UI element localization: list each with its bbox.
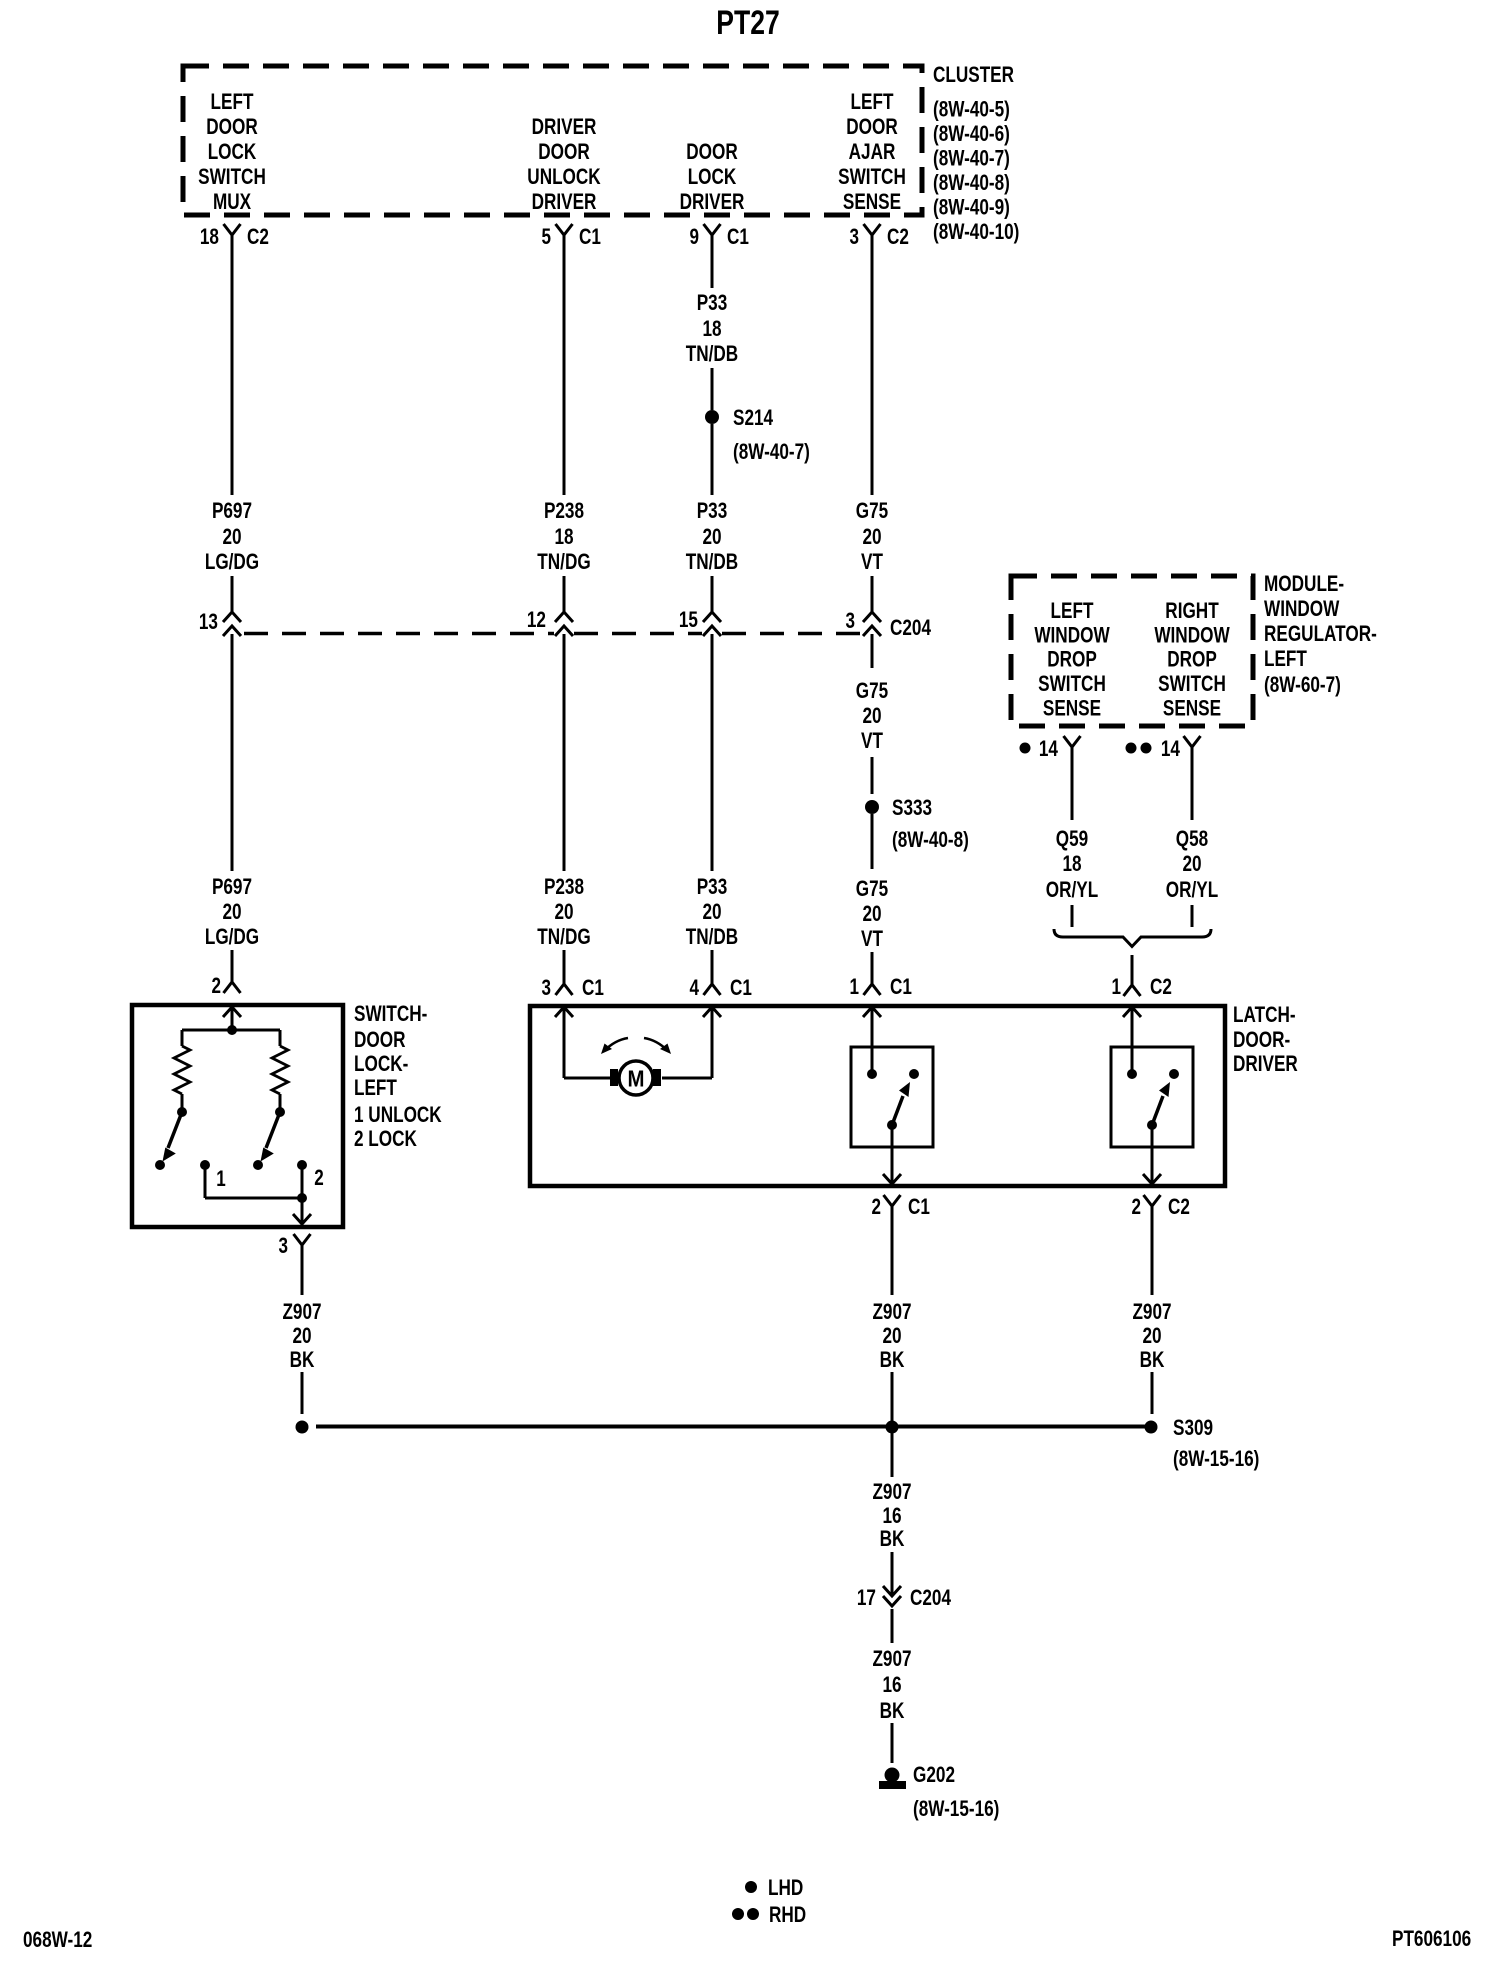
svg-text:C1: C1: [908, 1194, 930, 1219]
svg-text:C2: C2: [247, 224, 269, 249]
svg-text:C204: C204: [910, 1585, 952, 1610]
svg-text:(8W-40-10): (8W-40-10): [933, 219, 1019, 244]
wire P33 below C204: [711, 634, 714, 871]
wire merge brace joining Q59 and Q58: [1054, 929, 1211, 947]
wire P697 to switch pin 2: [231, 950, 234, 984]
connector C204 pin 13 symbol: [223, 612, 241, 622]
wire P238 to C204: [563, 576, 566, 613]
svg-text:20: 20: [554, 899, 573, 924]
wire P697 below C204: [231, 634, 234, 871]
wire P33 to latch pin 4: [711, 950, 714, 984]
svg-text:12: 12: [527, 607, 546, 632]
svg-text:LG/DG: LG/DG: [205, 549, 259, 574]
wire latch pin3 to motor: [563, 1007, 566, 1078]
svg-text:20: 20: [702, 899, 721, 924]
contact node in: [1127, 1069, 1137, 1079]
svg-text:(8W-40-8): (8W-40-8): [933, 170, 1010, 195]
resistor right (lock position sense): [272, 1046, 288, 1094]
svg-text:Z907: Z907: [872, 1299, 911, 1324]
svg-text:RIGHT: RIGHT: [1165, 598, 1219, 623]
LHD marker dot at left window switch connector: [1020, 743, 1031, 754]
svg-text:C2: C2: [887, 224, 909, 249]
connector pin 2 at switch: [224, 982, 241, 993]
svg-text:REGULATOR-: REGULATOR-: [1264, 621, 1377, 646]
contact node out (open): [909, 1069, 919, 1079]
wire Z907 below C204: [891, 1609, 894, 1643]
svg-text:9: 9: [690, 224, 700, 249]
legend LHD marker dot: [745, 1881, 757, 1893]
entry arrow latch pin 4: [703, 1007, 721, 1017]
svg-text:DOOR: DOOR: [846, 114, 898, 139]
svg-text:S333: S333: [892, 795, 932, 820]
connector C204 dashed body line segment: [722, 632, 862, 636]
wire latch pin1 C1 to status switch: [871, 1007, 874, 1074]
wire Z907 16 below S309: [891, 1427, 894, 1477]
svg-text:SENSE: SENSE: [1043, 696, 1101, 721]
svg-text:1 UNLOCK: 1 UNLOCK: [354, 1102, 442, 1127]
connector C204 pin 12 symbol: [555, 612, 573, 622]
svg-text:1: 1: [850, 974, 860, 999]
svg-text:C1: C1: [582, 975, 604, 1000]
switch wiper arm with arrowhead: [892, 1096, 903, 1125]
svg-text:P33: P33: [697, 290, 728, 315]
svg-text:LEFT: LEFT: [1264, 646, 1307, 671]
svg-text:3: 3: [542, 975, 552, 1000]
svg-text:1: 1: [216, 1166, 226, 1191]
svg-text:C1: C1: [579, 224, 601, 249]
svg-text:CLUSTER: CLUSTER: [933, 62, 1014, 87]
svg-text:BK: BK: [880, 1698, 905, 1723]
wire contact 1 down: [204, 1165, 207, 1198]
wire Z907 from latch pin 2 C2: [1151, 1206, 1154, 1295]
contact node 1 (unlock): [200, 1160, 210, 1170]
svg-text:PT27: PT27: [716, 4, 779, 42]
svg-text:15: 15: [679, 607, 698, 632]
wiper node: [1147, 1120, 1157, 1130]
splice S333: [865, 800, 879, 814]
svg-text:DOOR: DOOR: [206, 114, 258, 139]
svg-text:3: 3: [850, 224, 860, 249]
contact node out (open): [1169, 1069, 1179, 1079]
exit arrow latch pin 2 C1: [883, 1174, 901, 1184]
svg-text:SENSE: SENSE: [843, 189, 901, 214]
svg-text:4: 4: [690, 975, 700, 1000]
connector C2 pin 18 at CLUSTER: [224, 224, 241, 235]
svg-text:VT: VT: [861, 926, 883, 951]
connector C1 pin 9 at CLUSTER: [704, 224, 721, 235]
component SWITCH-DOOR LOCK-LEFT outline: [132, 1005, 343, 1227]
wire P238 from CLUSTER pin 5 down: [563, 235, 566, 495]
svg-text:SWITCH: SWITCH: [838, 164, 906, 189]
connector C204 dashed body line segment: [244, 632, 554, 636]
connector C1 pin 2 at latch output: [884, 1195, 901, 1206]
wire P33 from CLUSTER pin 9 down: [711, 235, 714, 288]
wire latch pin1 C2 to status switch: [1131, 1007, 1134, 1074]
svg-text:C2: C2: [1150, 974, 1172, 999]
svg-text:20: 20: [292, 1323, 311, 1348]
exit arrow latch pin 2 C2: [1143, 1174, 1161, 1184]
svg-text:2: 2: [314, 1165, 324, 1190]
wire Z907 from switch pin 3: [301, 1245, 304, 1295]
svg-text:P238: P238: [544, 874, 584, 899]
svg-text:068W-12: 068W-12: [23, 1927, 92, 1952]
svg-text:DOOR: DOOR: [538, 139, 590, 164]
connector C2 pin 3 at CLUSTER: [864, 224, 881, 235]
svg-text:UNLOCK: UNLOCK: [527, 164, 600, 189]
svg-text:OR/YL: OR/YL: [1166, 877, 1218, 902]
wire G75 below C204: [871, 634, 874, 668]
svg-text:MODULE-: MODULE-: [1264, 571, 1344, 596]
svg-text:20: 20: [702, 524, 721, 549]
svg-text:WINDOW: WINDOW: [1154, 622, 1229, 647]
entry arrow latch pin 3: [555, 1007, 573, 1017]
svg-text:18: 18: [200, 224, 219, 249]
svg-text:LEFT: LEFT: [211, 89, 254, 114]
svg-text:2: 2: [212, 973, 222, 998]
svg-text:3: 3: [846, 608, 856, 633]
wire Z907 from latch pin 2 C1: [891, 1206, 894, 1295]
contact node left arm: [155, 1160, 165, 1170]
exit arrow out of switch box: [293, 1214, 311, 1224]
contact node in: [867, 1069, 877, 1079]
svg-text:20: 20: [862, 703, 881, 728]
svg-text:G75: G75: [856, 876, 888, 901]
svg-text:(8W-40-7): (8W-40-7): [933, 145, 1010, 170]
wire Q59 from module pin 14: [1071, 747, 1074, 820]
wire Q58 from module pin 14: [1191, 747, 1194, 820]
splice junction left: [296, 1421, 309, 1434]
svg-text:TN/DG: TN/DG: [537, 549, 590, 574]
wiper pivot node left: [177, 1107, 187, 1117]
connector pin 14 at module left: [1064, 736, 1081, 747]
svg-text:LG/DG: LG/DG: [205, 924, 259, 949]
svg-text:Z907: Z907: [872, 1646, 911, 1671]
svg-text:(8W-40-5): (8W-40-5): [933, 96, 1010, 121]
svg-text:20: 20: [1182, 851, 1201, 876]
svg-text:(8W-40-6): (8W-40-6): [933, 121, 1010, 146]
wire resistor to wiper pivot: [181, 1094, 184, 1108]
wire contact 2 to switch pin 3: [301, 1165, 304, 1224]
svg-text:LEFT: LEFT: [354, 1075, 397, 1100]
svg-text:18: 18: [554, 524, 573, 549]
svg-text:17: 17: [857, 1585, 876, 1610]
svg-text:2 LOCK: 2 LOCK: [354, 1126, 417, 1151]
svg-text:18: 18: [1062, 851, 1081, 876]
wire motor right brush to pin 4: [662, 1077, 712, 1080]
svg-text:TN/DB: TN/DB: [686, 549, 738, 574]
splice S309: [1145, 1421, 1158, 1434]
svg-text:LEFT: LEFT: [1051, 598, 1094, 623]
wiper pivot node right: [275, 1107, 285, 1117]
svg-text:LHD: LHD: [768, 1875, 803, 1900]
wire latch pin4 to motor: [711, 1007, 714, 1078]
entry arrow latch pin 1 C1: [863, 1007, 881, 1017]
svg-text:DRIVER: DRIVER: [532, 189, 597, 214]
wire G75 to latch pin 1: [871, 952, 874, 984]
switch wiper arm right with arrowhead: [266, 1112, 280, 1148]
resistor left (unlock position sense): [174, 1046, 190, 1094]
svg-text:DRIVER: DRIVER: [1233, 1051, 1298, 1076]
svg-text:DRIVER: DRIVER: [532, 114, 597, 139]
svg-text:WINDOW: WINDOW: [1034, 622, 1109, 647]
motor rotation arrows: [604, 1038, 628, 1051]
svg-text:3: 3: [279, 1233, 289, 1258]
wire contact 1 to output junction: [205, 1197, 302, 1200]
svg-text:C1: C1: [890, 974, 912, 999]
svg-text:Z907: Z907: [282, 1299, 321, 1324]
wire Z907 to ground G202: [891, 1723, 894, 1763]
svg-text:DRIVER: DRIVER: [680, 189, 745, 214]
connector C1 pin 3 at latch: [556, 984, 573, 995]
svg-text:LEFT: LEFT: [851, 89, 894, 114]
connector pin 3 at switch output: [294, 1234, 311, 1245]
connector C1 pin 4 at latch: [704, 984, 721, 995]
svg-text:C204: C204: [890, 615, 932, 640]
wire ground bus S309: [316, 1425, 1151, 1429]
module MODULE-WINDOW REGULATOR-LEFT dashed outline: [1011, 576, 1253, 726]
svg-text:BK: BK: [1140, 1347, 1165, 1372]
svg-text:2: 2: [872, 1194, 882, 1219]
svg-text:18: 18: [702, 316, 721, 341]
connector C2 pin 2 at latch output: [1144, 1195, 1161, 1206]
svg-text:20: 20: [1142, 1323, 1161, 1348]
svg-text:20: 20: [862, 524, 881, 549]
status switch 1 outline: [851, 1047, 933, 1147]
svg-text:S309: S309: [1173, 1415, 1213, 1440]
connector C2 pin 1 at latch: [1124, 985, 1141, 996]
svg-text:VT: VT: [861, 728, 883, 753]
wire G75 to splice S333: [871, 757, 874, 794]
svg-text:BK: BK: [290, 1347, 315, 1372]
wire resistor to wiper pivot: [279, 1094, 282, 1108]
svg-text:DOOR-: DOOR-: [1233, 1027, 1290, 1052]
wire to left resistor: [181, 1030, 184, 1046]
wire internal horizontal: [182, 1029, 280, 1032]
wire to right resistor: [279, 1030, 282, 1046]
svg-text:(8W-60-7): (8W-60-7): [1264, 672, 1341, 697]
ground G202 symbol: [885, 1768, 900, 1783]
contact node 2 (lock): [297, 1160, 307, 1170]
svg-text:TN/DB: TN/DB: [686, 341, 738, 366]
svg-text:M: M: [628, 1065, 645, 1091]
wire P33 to C204: [711, 576, 714, 613]
svg-text:(8W-40-9): (8W-40-9): [933, 194, 1010, 219]
svg-text:BK: BK: [880, 1347, 905, 1372]
connector pin 14 at module right: [1184, 736, 1201, 747]
wire P238 to latch pin 3: [563, 950, 566, 984]
wire G75 from CLUSTER pin 3 down: [871, 235, 874, 495]
wire Z907 to C204 pin 17: [891, 1552, 894, 1596]
wire Q59 stub to merge brace: [1071, 905, 1074, 927]
svg-text:LOCK: LOCK: [688, 164, 737, 189]
wire P697 from CLUSTER pin 18 down: [231, 235, 234, 495]
svg-text:VT: VT: [861, 549, 883, 574]
svg-text:14: 14: [1161, 736, 1181, 761]
svg-text:TN/DB: TN/DB: [686, 924, 738, 949]
svg-text:P33: P33: [697, 874, 728, 899]
connector C204 pin 17 symbol: [883, 1586, 901, 1596]
splice S214: [705, 410, 719, 424]
svg-text:WINDOW: WINDOW: [1264, 596, 1339, 621]
svg-text:G202: G202: [913, 1762, 955, 1787]
svg-text:DOOR: DOOR: [686, 139, 738, 164]
component LATCH-DOOR-DRIVER outline: [530, 1006, 1225, 1186]
connector C1 pin 5 at CLUSTER: [556, 224, 573, 235]
svg-text:TN/DG: TN/DG: [537, 924, 590, 949]
motor M door lock motor: [610, 1069, 618, 1086]
svg-text:C1: C1: [727, 224, 749, 249]
wire status switch 2 to latch pin 2 C2: [1151, 1125, 1154, 1184]
svg-text:BK: BK: [880, 1526, 905, 1551]
wire inside switch from pin 2: [231, 1007, 234, 1030]
status switch 2 outline: [1111, 1047, 1193, 1147]
svg-text:PT606106: PT606106: [1392, 1926, 1471, 1951]
wire Z907 to splice S309: [891, 1372, 894, 1427]
wire G75 below S333: [871, 814, 874, 869]
svg-text:1: 1: [1112, 974, 1122, 999]
wire P33 below S214: [711, 424, 714, 495]
svg-text:Q59: Q59: [1056, 826, 1088, 851]
connector C1 pin 1 at latch: [864, 984, 881, 995]
wiper node: [887, 1120, 897, 1130]
svg-text:LOCK: LOCK: [208, 139, 257, 164]
svg-text:5: 5: [542, 224, 552, 249]
wire P33 to splice S214: [711, 368, 714, 410]
svg-text:S214: S214: [733, 405, 774, 430]
RHD marker dots at right window switch connector: [1126, 743, 1137, 754]
svg-text:(8W-15-16): (8W-15-16): [1173, 1446, 1259, 1471]
svg-text:Z907: Z907: [1132, 1299, 1171, 1324]
svg-text:20: 20: [882, 1323, 901, 1348]
wire Z907 to splice S309: [301, 1372, 304, 1414]
connector C204 dashed body line segment: [574, 632, 702, 636]
svg-text:(8W-40-8): (8W-40-8): [892, 827, 969, 852]
switch wiper arm left with arrowhead: [168, 1112, 182, 1148]
connector C204 pin 3 symbol: [863, 612, 881, 622]
svg-text:G75: G75: [856, 498, 888, 523]
svg-text:G75: G75: [856, 678, 888, 703]
svg-text:DROP: DROP: [1047, 647, 1097, 672]
svg-text:C1: C1: [730, 975, 752, 1000]
svg-text:SWITCH-: SWITCH-: [354, 1001, 427, 1026]
junction node inside switch: [227, 1025, 237, 1035]
wire P697 to C204: [231, 576, 234, 613]
svg-text:16: 16: [882, 1503, 901, 1528]
wire to motor left brush: [564, 1077, 611, 1080]
svg-text:20: 20: [222, 524, 241, 549]
svg-text:OR/YL: OR/YL: [1046, 877, 1098, 902]
svg-text:LATCH-: LATCH-: [1233, 1002, 1296, 1027]
splice junction middle: [886, 1421, 899, 1434]
svg-text:DOOR: DOOR: [354, 1027, 406, 1052]
svg-text:LOCK-: LOCK-: [354, 1051, 408, 1076]
svg-text:C2: C2: [1168, 1194, 1190, 1219]
wire merged Q59/Q58 to latch pin 1 C2: [1131, 955, 1134, 985]
svg-text:(8W-40-7): (8W-40-7): [733, 439, 810, 464]
svg-text:Z907: Z907: [872, 1479, 911, 1504]
svg-text:SENSE: SENSE: [1163, 696, 1221, 721]
wire Q58 stub to merge brace: [1191, 905, 1194, 927]
junction node at switch output: [297, 1193, 307, 1203]
svg-text:P697: P697: [212, 874, 252, 899]
module CLUSTER dashed outline: [183, 66, 922, 215]
wire P238 below C204: [563, 634, 566, 871]
wire G75 to C204: [871, 576, 874, 613]
entry arrow latch pin 1 C2: [1123, 1007, 1141, 1017]
entry arrow into switch box: [223, 1007, 241, 1017]
switch wiper arm with arrowhead: [1152, 1096, 1163, 1125]
svg-text:Q58: Q58: [1176, 826, 1208, 851]
svg-text:14: 14: [1039, 736, 1059, 761]
svg-text:16: 16: [882, 1672, 901, 1697]
svg-text:20: 20: [862, 901, 881, 926]
legend RHD marker dots: [732, 1908, 744, 1920]
svg-text:SWITCH: SWITCH: [1038, 671, 1106, 696]
svg-text:2: 2: [1132, 1194, 1142, 1219]
connector C204 pin 15 symbol: [703, 612, 721, 622]
svg-text:SWITCH: SWITCH: [1158, 671, 1226, 696]
svg-text:(8W-15-16): (8W-15-16): [913, 1796, 999, 1821]
svg-text:RHD: RHD: [769, 1902, 806, 1927]
svg-text:DROP: DROP: [1167, 647, 1217, 672]
svg-text:AJAR: AJAR: [849, 139, 896, 164]
svg-text:P33: P33: [697, 498, 728, 523]
wire status switch 1 to latch pin 2 C1: [891, 1125, 894, 1184]
svg-text:13: 13: [199, 609, 218, 634]
svg-text:SWITCH: SWITCH: [198, 164, 266, 189]
contact node right arm: [253, 1160, 263, 1170]
svg-text:MUX: MUX: [213, 189, 251, 214]
svg-text:P697: P697: [212, 498, 252, 523]
wire Z907 to splice S309: [1151, 1372, 1154, 1414]
svg-text:20: 20: [222, 899, 241, 924]
svg-text:P238: P238: [544, 498, 584, 523]
